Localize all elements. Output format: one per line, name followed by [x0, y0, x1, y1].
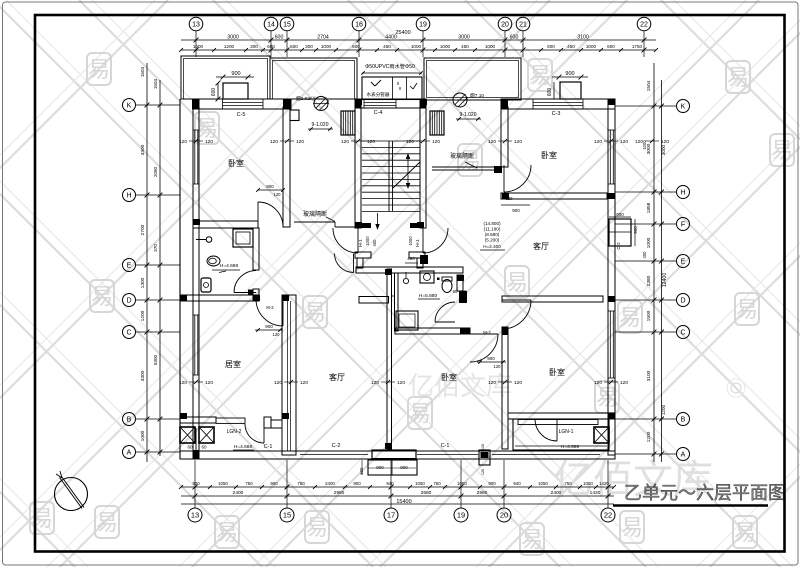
svg-text:120: 120 [488, 139, 496, 145]
svg-text:烟2.02/②: 烟2.02/② [296, 95, 316, 102]
north symbol mark [56, 474, 62, 478]
left dimension chain [136, 63, 180, 462]
svg-text:乙单元～六层平面图: 乙单元～六层平面图 [624, 483, 786, 503]
wall: bathroom1 right wall upper [253, 228, 259, 270]
fixture: shower box [233, 229, 253, 247]
svg-text:B: B [127, 417, 132, 424]
north symbol circle [55, 478, 88, 511]
wall: bedroomTR bottom wall [501, 193, 607, 199]
top dimension chain [179, 30, 658, 57]
svg-text:900: 900 [231, 71, 240, 77]
svg-text:LGN-2: LGN-2 [227, 429, 242, 435]
dim 900 door D1 [258, 189, 283, 191]
fixture: washer1 [201, 278, 211, 292]
svg-text:900: 900 [487, 356, 495, 361]
door D3 bedroomLL [256, 299, 283, 326]
window sill BR [518, 420, 598, 425]
wall: bedroomTR top wall [501, 99, 615, 109]
svg-text:120: 120 [594, 380, 602, 386]
right dimension chain [615, 63, 676, 462]
svg-text:1000: 1000 [411, 44, 422, 49]
stair top landing slab [355, 99, 426, 108]
svg-text:易: 易 [727, 65, 749, 90]
wall: bedroomBR left wall [502, 327, 508, 449]
svg-text:H=2.400: H=2.400 [483, 244, 501, 249]
wall: bedroom1 top wall [193, 99, 292, 109]
wall: bedroomTR left wall [501, 107, 508, 167]
svg-text:(8.580): (8.580) [485, 232, 500, 237]
window C-4 lines [364, 102, 396, 104]
svg-text:1050: 1050 [538, 481, 548, 486]
svg-text:K: K [681, 104, 686, 111]
bottom axis bubbles [188, 508, 615, 522]
svg-text:E: E [681, 259, 686, 266]
svg-text:M-2: M-2 [483, 330, 491, 335]
dim 900 over bump1 [216, 76, 254, 78]
glass partition right line [432, 166, 494, 168]
svg-text:2400: 2400 [233, 490, 244, 496]
svg-text:易: 易 [306, 515, 328, 540]
svg-text:1000: 1000 [365, 236, 370, 246]
svg-text:120: 120 [274, 380, 282, 386]
svg-text:卧室: 卧室 [228, 158, 244, 168]
svg-text:120: 120 [371, 380, 379, 386]
svg-text:1420: 1420 [599, 481, 609, 486]
svg-text:1750: 1750 [632, 44, 643, 49]
svg-text:2980: 2980 [477, 490, 488, 496]
hall step wall a2 [409, 252, 425, 258]
wall: bedroomLL right wall [282, 295, 296, 455]
xbox shaft right [594, 427, 609, 443]
svg-text:1000: 1000 [321, 44, 332, 49]
wall: bathroom2 left wall [395, 273, 399, 331]
door D1 bedroom1 [258, 202, 283, 227]
svg-text:3000: 3000 [661, 144, 666, 155]
svg-text:卧室: 卧室 [541, 150, 557, 160]
svg-text:H: H [126, 193, 131, 200]
svg-text:900: 900 [270, 481, 278, 486]
dim 600 bumpTR [553, 82, 555, 99]
svg-text:600: 600 [607, 44, 615, 49]
right axis bubbles [677, 100, 690, 461]
svg-text:卧室: 卧室 [549, 367, 565, 377]
fixture: toilet2 [442, 280, 452, 293]
svg-text:1000: 1000 [408, 236, 413, 246]
svg-text:M-2: M-2 [266, 305, 274, 310]
svg-text:C-5: C-5 [237, 112, 246, 118]
column TR top [501, 99, 508, 109]
svg-text:450: 450 [461, 44, 469, 49]
svg-text:易: 易 [304, 300, 326, 325]
column BR left top [502, 327, 508, 335]
svg-text:900: 900 [192, 481, 200, 486]
svg-text:3100: 3100 [577, 35, 589, 41]
hall stub wall [359, 297, 389, 304]
svg-text:LGN-1: LGN-1 [559, 429, 574, 435]
svg-text:易: 易 [91, 284, 113, 309]
wall: central spine [387, 269, 392, 449]
svg-text:120: 120 [274, 192, 282, 197]
title underline [613, 504, 768, 506]
svg-text:19: 19 [457, 511, 465, 520]
fixture: toilet1 [207, 256, 220, 266]
dim 600 left of bump1 [217, 83, 219, 99]
svg-text:易: 易 [521, 527, 543, 552]
svg-text:亿佰文库: 亿佰文库 [408, 371, 512, 401]
top axis bubbles [189, 17, 651, 31]
left axis bubbles [123, 99, 136, 459]
junction columns [180, 99, 615, 449]
svg-text:C: C [680, 330, 685, 337]
balcony LGN-2 divider [195, 428, 197, 459]
window C-3 lines [533, 102, 583, 104]
column bath2 SE [460, 328, 470, 334]
hall step wall b2 [417, 258, 423, 268]
svg-text:F: F [681, 222, 685, 229]
svg-text:120: 120 [179, 380, 187, 386]
svg-text:1000: 1000 [193, 44, 204, 49]
hall step wall a [355, 252, 371, 258]
wall: left wing left wall [193, 99, 199, 458]
svg-text:1300: 1300 [140, 277, 146, 288]
svg-text:A: A [127, 450, 132, 457]
svg-text:2400: 2400 [551, 490, 562, 496]
door D2 bathroom1 [234, 271, 256, 293]
svg-text:K: K [127, 103, 132, 110]
svg-text:15: 15 [283, 511, 291, 520]
svg-text:900: 900 [633, 226, 638, 234]
svg-text:750: 750 [564, 481, 572, 486]
svg-text:1200: 1200 [140, 310, 146, 321]
svg-text:600: 600 [267, 44, 275, 49]
vent circle 2 [453, 93, 467, 107]
svg-text:3300: 3300 [140, 144, 146, 155]
fixture: floor drain [403, 278, 408, 283]
svg-text:750: 750 [245, 481, 253, 486]
svg-text:600: 600 [352, 44, 360, 49]
column bedroom1 top-right [283, 99, 291, 109]
svg-text:1000: 1000 [140, 430, 146, 441]
wall: bedroomBR bottom wall [508, 413, 615, 419]
svg-text:H=5.880: H=5.880 [419, 293, 438, 299]
svg-text:120: 120 [514, 139, 522, 145]
window right wall lower [609, 311, 611, 378]
svg-text:120: 120 [296, 139, 304, 145]
svg-text:1504: 1504 [153, 78, 158, 89]
svg-text:易: 易 [529, 63, 551, 88]
wall: bottom outer wall [180, 451, 615, 459]
svg-text:1420: 1420 [590, 490, 601, 496]
svg-text:H=4.688: H=4.688 [561, 444, 580, 450]
wall: bedroom1 bottom wall [193, 221, 258, 228]
svg-text:20: 20 [501, 22, 509, 29]
svg-text:900: 900 [266, 184, 274, 189]
svg-text:(14.800): (14.800) [483, 221, 501, 226]
svg-text:60: 60 [201, 445, 207, 450]
interior 120 dimension pairs [179, 139, 669, 386]
svg-text:120: 120 [488, 380, 496, 386]
svg-text:900: 900 [616, 212, 624, 217]
svg-text:易: 易 [96, 510, 118, 535]
svg-text:易: 易 [736, 297, 758, 322]
door D7 bathroom2 [435, 302, 455, 322]
stair bottom pier left [359, 223, 371, 228]
column stair TR [420, 99, 426, 108]
meter box marks [371, 82, 375, 86]
svg-text:易: 易 [506, 270, 528, 295]
svg-text:3100: 3100 [646, 370, 652, 381]
xbox shaft left A [180, 427, 195, 443]
svg-text:400: 400 [372, 239, 377, 247]
balcony LGN-1 inner [515, 445, 607, 447]
svg-text:1000: 1000 [586, 44, 597, 49]
dim 900 over bumpTR [552, 76, 588, 78]
hall step wall b [357, 258, 363, 268]
svg-text:940: 940 [386, 481, 394, 486]
niche bottom line [391, 295, 395, 297]
meterbox dim line [362, 72, 422, 74]
svg-text:易: 易 [734, 520, 756, 545]
svg-text:900: 900 [488, 481, 496, 486]
svg-text:60: 60 [187, 445, 193, 450]
svg-text:120: 120 [661, 139, 669, 145]
hall door D4 [335, 254, 354, 273]
svg-text:1500: 1500 [646, 310, 652, 321]
wall: left outer line [179, 99, 181, 458]
svg-text:C-1: C-1 [441, 443, 450, 449]
svg-text:1000: 1000 [646, 237, 652, 248]
door D9 bedroomTR [504, 165, 531, 192]
vent circle 1 [314, 97, 328, 111]
svg-text:H=4.688: H=4.688 [234, 444, 253, 450]
wall: bedroomBR top wall [502, 296, 603, 302]
door balcony LGN-1 [535, 419, 557, 441]
wall: stairwell left wall [355, 99, 361, 228]
dim 900 door LL [255, 329, 283, 331]
svg-text:(5.200): (5.200) [485, 238, 500, 243]
svg-text:客厅: 客厅 [533, 241, 549, 251]
svg-text:易: 易 [216, 520, 238, 545]
svg-text:940: 940 [513, 481, 521, 486]
svg-text:900: 900 [353, 481, 361, 486]
svg-text:9-1.020: 9-1.020 [460, 112, 477, 118]
svg-text:卧室: 卧室 [441, 372, 457, 382]
svg-text:750: 750 [433, 481, 441, 486]
svg-text:13: 13 [192, 22, 200, 29]
svg-text:900: 900 [400, 465, 408, 470]
stair window right [430, 111, 444, 135]
dim 900 door BR [477, 361, 506, 363]
svg-text:易: 易 [771, 138, 793, 163]
svg-text:2080: 2080 [153, 166, 158, 177]
svg-text:A: A [681, 452, 686, 459]
svg-text:14: 14 [267, 22, 275, 29]
entry door D5 [333, 228, 358, 253]
svg-text:1200: 1200 [661, 404, 666, 415]
window C-2 lines [300, 454, 368, 456]
stair treads and rails [362, 141, 420, 230]
stair window left [341, 111, 355, 135]
svg-text:易: 易 [459, 148, 481, 173]
svg-text:2380: 2380 [646, 275, 652, 286]
svg-text:易: 易 [88, 57, 110, 82]
window right wall upper [609, 130, 611, 184]
svg-text:25400: 25400 [395, 30, 410, 36]
svg-text:2700: 2700 [140, 224, 146, 235]
svg-text:H=4.688: H=4.688 [220, 263, 239, 269]
svg-text:2400: 2400 [325, 481, 335, 486]
balcony bump bedroomTR [560, 82, 581, 99]
svg-text:600: 600 [275, 35, 284, 41]
svg-text:900: 900 [512, 208, 520, 213]
svg-text:易: 易 [621, 515, 643, 540]
svg-text:C-4: C-4 [374, 110, 383, 116]
svg-text:60: 60 [462, 289, 467, 294]
pier right partition [494, 166, 502, 173]
svg-text:120: 120 [432, 139, 440, 145]
svg-text:600: 600 [290, 44, 298, 49]
svg-text:120: 120 [341, 139, 349, 145]
svg-text:1858: 1858 [646, 202, 652, 213]
svg-text:1050: 1050 [457, 481, 467, 486]
svg-text:2980: 2980 [334, 490, 345, 496]
svg-text:1200: 1200 [646, 431, 652, 442]
balcony bump bedroom1 [223, 83, 248, 99]
fixture: soap dot [437, 278, 440, 281]
svg-text:120: 120 [273, 332, 281, 337]
balcony LGN-1 outline [513, 419, 609, 450]
svg-text:120: 120 [481, 469, 485, 475]
svg-text:22: 22 [640, 22, 648, 29]
svg-text:9-1.020: 9-1.020 [312, 122, 329, 128]
svg-text:600: 600 [547, 88, 553, 97]
dim 900 door TR [501, 204, 530, 206]
svg-text:12400: 12400 [662, 273, 668, 288]
terrace C (top-right) [424, 58, 521, 100]
svg-text:750: 750 [297, 481, 305, 486]
stair bottom pier right [410, 223, 422, 228]
svg-text:300: 300 [250, 44, 258, 49]
wall: bathroom2 right wall [457, 275, 463, 291]
wall: bathroom2 bottom wall [395, 328, 470, 334]
svg-text:易: 易 [409, 401, 431, 426]
svg-text:4400: 4400 [385, 35, 397, 41]
shaft bump right wall [609, 219, 631, 246]
right bottom pier [479, 450, 490, 465]
svg-text:烟7.10: 烟7.10 [470, 92, 484, 99]
svg-text:H-1: H-1 [415, 239, 421, 247]
terrace A (top-left balcony) [181, 56, 270, 99]
svg-text:15: 15 [283, 22, 291, 29]
column stair TL [355, 99, 361, 108]
svg-text:900: 900 [265, 324, 273, 329]
svg-text:Φ50UPVC雨水管Φ50: Φ50UPVC雨水管Φ50 [365, 62, 415, 70]
svg-text:C: C [126, 330, 131, 337]
column bath2 E [459, 291, 467, 303]
svg-text:C-1: C-1 [264, 444, 273, 450]
bottom bump box [368, 460, 417, 475]
svg-text:16: 16 [355, 22, 363, 29]
svg-text:120: 120 [205, 139, 213, 145]
svg-text:C-3: C-3 [552, 111, 561, 117]
svg-text:13: 13 [191, 511, 199, 520]
svg-text:1050: 1050 [415, 481, 425, 486]
svg-text:1200: 1200 [224, 44, 235, 49]
svg-text:120: 120 [406, 139, 414, 145]
xbox shaft left B [199, 427, 214, 443]
window left wall upper [194, 130, 196, 184]
svg-text:1504: 1504 [140, 66, 145, 77]
svg-text:3300: 3300 [140, 370, 146, 381]
svg-text:水表分管器: 水表分管器 [367, 91, 390, 98]
svg-text:120: 120 [481, 444, 485, 450]
svg-text:D: D [126, 298, 131, 305]
svg-text:居室: 居室 [225, 359, 241, 369]
window left wall lower [194, 315, 196, 375]
svg-text:H: H [680, 190, 685, 197]
svg-text:2704: 2704 [317, 35, 329, 41]
svg-text:600: 600 [547, 44, 555, 49]
door balcony LGN-2 [245, 424, 264, 443]
bottom dimension chain [179, 460, 616, 508]
fixture: tub [396, 311, 418, 330]
svg-text:300: 300 [305, 44, 313, 49]
svg-text:E: E [127, 263, 132, 270]
flue box right of bedroom1 [290, 110, 299, 121]
door D8 bedroomBC [470, 334, 498, 362]
svg-text:900: 900 [565, 71, 574, 77]
svg-text:60: 60 [453, 289, 458, 294]
svg-text:5300: 5300 [153, 354, 158, 365]
north symbol line [60, 478, 83, 509]
wall: LGN-2 door jamb [264, 417, 271, 428]
svg-text:400: 400 [642, 251, 647, 259]
svg-text:600: 600 [359, 467, 364, 475]
window sill LGN-2 [216, 418, 245, 423]
fixture: sink1 [206, 237, 212, 243]
svg-text:120: 120 [367, 139, 375, 145]
svg-text:370: 370 [153, 244, 158, 252]
box LGN-2 jamb [271, 420, 282, 428]
svg-text:480: 480 [407, 256, 415, 261]
fixture: sink counter [420, 271, 434, 283]
svg-text:(11.190): (11.190) [484, 227, 501, 232]
svg-text:20: 20 [500, 511, 508, 520]
svg-text:3000: 3000 [227, 35, 239, 41]
svg-text:120: 120 [514, 380, 522, 386]
wall: stairwell right wall [420, 99, 426, 228]
svg-text:22: 22 [604, 511, 612, 520]
svg-text:易: 易 [619, 305, 641, 330]
svg-text:21: 21 [519, 22, 527, 29]
wall: bedroomLL bottom wall [180, 417, 216, 423]
svg-text:120: 120 [620, 139, 628, 145]
svg-text:450: 450 [383, 44, 391, 49]
svg-text:1504: 1504 [646, 80, 652, 91]
wall: bedroomLL top wall [180, 295, 255, 301]
svg-text:玻璃隔断: 玻璃隔断 [450, 152, 474, 160]
svg-text:H-1: H-1 [358, 239, 364, 247]
svg-text:19: 19 [419, 22, 427, 29]
hall-south wall [356, 267, 463, 273]
svg-text:17: 17 [387, 511, 395, 520]
svg-text:1000: 1000 [440, 44, 451, 49]
svg-text:1050: 1050 [218, 481, 228, 486]
svg-text:120: 120 [270, 139, 278, 145]
svg-text:1050: 1050 [583, 481, 593, 486]
svg-text:D: D [680, 298, 685, 305]
column bedroom1 top-left [193, 99, 200, 109]
